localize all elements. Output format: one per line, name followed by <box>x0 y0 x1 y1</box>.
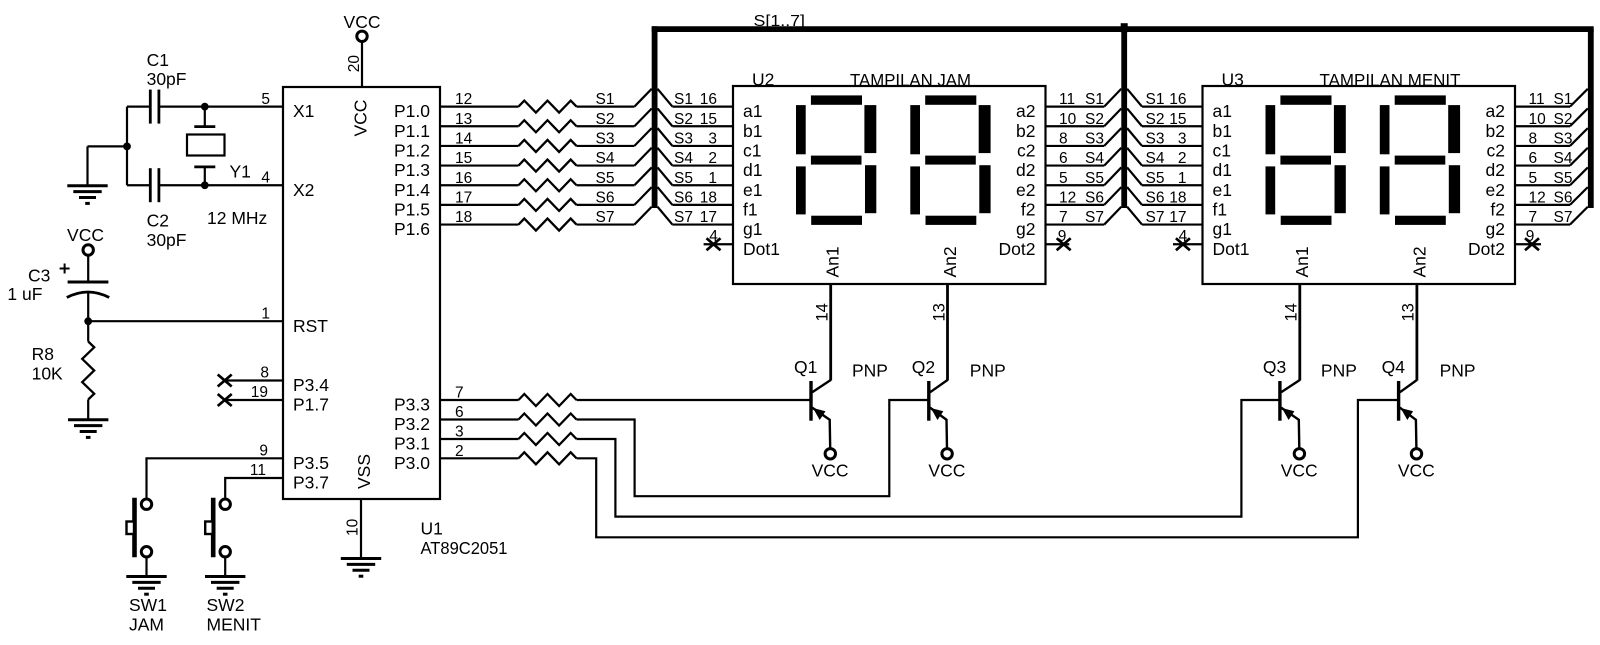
ground (SW1) <box>126 577 166 595</box>
transistor Q3 (PNP) collector lead <box>1298 284 1301 381</box>
bus entry S5 (U3 right) <box>1570 167 1588 185</box>
svg-text:S2: S2 <box>1554 111 1573 128</box>
wire S6 to U2 pin 18 <box>672 204 733 206</box>
wire U1 pin 7 to resistor <box>440 399 519 401</box>
svg-text:P1.7: P1.7 <box>293 395 329 415</box>
svg-text:AT89C2051: AT89C2051 <box>421 538 508 558</box>
wire S1 to U2 pin 16 <box>672 105 733 107</box>
node ground branch junction <box>123 143 131 151</box>
wire U2 pin 7 to bus <box>1046 223 1105 225</box>
svg-text:S2: S2 <box>674 111 693 128</box>
svg-text:c2: c2 <box>1017 141 1035 161</box>
transistor Q4 body <box>1399 380 1417 448</box>
svg-text:Dot1: Dot1 <box>743 239 780 259</box>
svg-text:f1: f1 <box>1213 200 1228 220</box>
wire VCC to C3 <box>87 255 89 281</box>
svg-text:g1: g1 <box>743 219 762 239</box>
transistor Q4 (PNP) collector lead <box>1416 284 1419 381</box>
svg-text:e1: e1 <box>743 180 762 200</box>
svg-text:S1: S1 <box>1146 91 1165 108</box>
svg-text:g2: g2 <box>1486 219 1505 239</box>
svg-text:VCC: VCC <box>928 461 965 481</box>
wire to crystal ground <box>88 145 128 147</box>
wire resistor to bus S2 <box>577 125 635 127</box>
VCC terminal of Q2 <box>942 449 952 459</box>
svg-text:b2: b2 <box>1016 121 1035 141</box>
svg-text:30pF: 30pF <box>147 230 187 250</box>
svg-text:14: 14 <box>1283 303 1301 321</box>
svg-text:5: 5 <box>261 91 270 108</box>
wire Dot1 stub (U3 pin 4) <box>1173 243 1203 245</box>
svg-text:C2: C2 <box>147 210 169 230</box>
bus exit S7 to U2 <box>658 207 673 225</box>
wire U3 pin 11 to bus <box>1515 105 1570 107</box>
svg-text:S3: S3 <box>1085 131 1104 148</box>
svg-text:10: 10 <box>1059 111 1077 128</box>
svg-text:U3: U3 <box>1222 70 1244 90</box>
svg-text:12 MHz: 12 MHz <box>207 208 267 228</box>
svg-text:VCC: VCC <box>344 12 381 32</box>
svg-text:d2: d2 <box>1486 160 1505 180</box>
wire S3 to U2 pin 3 <box>672 145 733 147</box>
svg-text:g2: g2 <box>1016 219 1035 239</box>
svg-text:a2: a2 <box>1486 101 1505 121</box>
svg-text:a1: a1 <box>743 101 762 121</box>
svg-text:S1: S1 <box>596 91 615 108</box>
bus entry left S6 <box>634 187 651 205</box>
wire resistor to bus S5 <box>577 184 635 186</box>
wire P3.7 (pin 11) to SW2 <box>225 478 283 498</box>
svg-text:P1.1: P1.1 <box>394 121 430 141</box>
svg-text:S6: S6 <box>596 190 615 207</box>
U2 digit 1 (8) <box>796 95 876 225</box>
wire U3 pin 5 to bus <box>1515 184 1570 186</box>
wire resistor to bus S3 <box>577 145 635 147</box>
wire U3 pin 8 to bus <box>1515 145 1570 147</box>
wire U2 pin 10 to bus <box>1046 125 1105 127</box>
resistor (base drive 4) <box>519 452 577 464</box>
svg-text:S3: S3 <box>596 131 615 148</box>
wire Dot2 stub (U2 pin 9) <box>1046 243 1070 245</box>
svg-text:14: 14 <box>814 303 832 321</box>
7-segment display U2 box <box>733 86 1046 284</box>
wire P3.3 to Q1 base <box>577 399 812 401</box>
wire P3.0 to Q4 base <box>577 400 1399 537</box>
svg-text:f2: f2 <box>1021 200 1036 220</box>
capacitor C2 <box>150 168 159 202</box>
wire P1.7 stub (pin 19) <box>224 399 283 401</box>
wire S2 to U2 pin 15 <box>672 125 733 127</box>
svg-text:4: 4 <box>1179 228 1188 245</box>
svg-text:PNP: PNP <box>852 360 888 380</box>
VCC terminal of Q3 <box>1294 449 1304 459</box>
wire S4 to U3 pin 2 <box>1142 164 1203 166</box>
bus S[1..7] vertical (middle) <box>1121 29 1127 208</box>
svg-text:P3.1: P3.1 <box>394 434 430 454</box>
svg-text:X2: X2 <box>293 180 314 200</box>
no-connect X on pin 19 <box>218 394 232 406</box>
svg-text:P1.2: P1.2 <box>394 141 430 161</box>
bus entry S6 (U3 right) <box>1570 187 1588 205</box>
svg-text:6: 6 <box>1059 150 1068 167</box>
wire U3 pin 12 to bus <box>1515 204 1570 206</box>
svg-text:9: 9 <box>1526 228 1535 245</box>
capacitor C1 <box>150 90 159 124</box>
svg-text:S4: S4 <box>1146 150 1165 167</box>
svg-text:An1: An1 <box>822 246 842 277</box>
wire pin 12 to resistor <box>440 105 519 107</box>
svg-text:d1: d1 <box>743 160 762 180</box>
resistor (segment S1 series) <box>519 101 577 113</box>
resistor (segment S2 series) <box>519 120 577 132</box>
svg-text:S7: S7 <box>1085 209 1104 226</box>
wire S5 to U2 pin 1 <box>672 184 733 186</box>
svg-text:S5: S5 <box>674 170 693 187</box>
bus exit S1 to U3 <box>1127 89 1142 107</box>
svg-text:S2: S2 <box>596 111 615 128</box>
svg-text:b1: b1 <box>1213 121 1232 141</box>
bus exit S2 to U3 <box>1127 108 1142 126</box>
svg-text:f2: f2 <box>1490 200 1505 220</box>
bus exit S5 to U2 <box>658 167 673 185</box>
svg-text:VCC: VCC <box>67 225 104 245</box>
svg-text:PNP: PNP <box>1321 360 1357 380</box>
ground (SW2) <box>205 577 245 595</box>
svg-text:10K: 10K <box>32 363 63 383</box>
svg-text:b2: b2 <box>1486 121 1505 141</box>
svg-text:P3.5: P3.5 <box>293 453 329 473</box>
bus exit S6 to U3 <box>1127 187 1142 205</box>
transistor Q2 (PNP) collector lead <box>946 284 949 381</box>
wire U2 pin 5 to bus <box>1046 184 1105 186</box>
svg-text:VCC: VCC <box>1398 461 1435 481</box>
U3 digit 1 (8) <box>1266 95 1346 225</box>
svg-text:S2: S2 <box>1085 111 1104 128</box>
no-connect X on U3 Dot2 <box>1525 238 1539 250</box>
svg-text:VCC: VCC <box>1281 461 1318 481</box>
switch SW1 (JAM) <box>127 498 152 577</box>
wire S1 to U3 pin 16 <box>1142 105 1203 107</box>
node X1 junction <box>201 103 209 111</box>
svg-text:S4: S4 <box>1554 150 1573 167</box>
svg-text:8: 8 <box>1529 131 1538 148</box>
svg-text:S6: S6 <box>1146 190 1165 207</box>
svg-text:b1: b1 <box>743 121 762 141</box>
svg-text:S3: S3 <box>674 131 693 148</box>
svg-text:P1.4: P1.4 <box>394 180 430 200</box>
wire S7 to U3 pin 17 <box>1142 223 1203 225</box>
bus S[1..7] vertical (left) <box>652 26 658 208</box>
bus exit S3 to U3 <box>1127 128 1142 146</box>
svg-text:30pF: 30pF <box>147 69 187 89</box>
bus exit S7 to U3 <box>1127 207 1142 225</box>
bus junction dot <box>1121 23 1128 32</box>
svg-text:e1: e1 <box>1213 180 1232 200</box>
transistor Q2 body <box>929 380 948 448</box>
7-segment display U3 box <box>1203 86 1516 284</box>
wire resistor to bus S6 <box>577 204 635 206</box>
svg-text:a1: a1 <box>1213 101 1232 121</box>
bus S[1..7] horizontal (top) <box>652 26 1594 32</box>
wire pin 15 to resistor <box>440 164 519 166</box>
svg-text:5: 5 <box>1059 170 1068 187</box>
bus entry left S2 <box>634 108 651 126</box>
bus exit S4 to U2 <box>658 148 673 166</box>
resistor (segment S7 series) <box>519 219 577 231</box>
VCC terminal of Q1 <box>825 449 835 459</box>
resistor (segment S5 series) <box>519 179 577 191</box>
svg-text:a2: a2 <box>1016 101 1035 121</box>
svg-text:S2: S2 <box>1146 111 1165 128</box>
svg-text:P3.4: P3.4 <box>293 375 329 395</box>
svg-text:g1: g1 <box>1213 219 1232 239</box>
svg-text:S4: S4 <box>596 150 615 167</box>
svg-text:Q3: Q3 <box>1263 357 1286 377</box>
transistor Q1 (PNP) collector lead <box>829 284 832 381</box>
svg-text:15: 15 <box>1169 111 1186 128</box>
bus entry S7 (U2 right) <box>1104 207 1121 225</box>
wire RST (pin 1) <box>88 320 283 322</box>
svg-text:S1: S1 <box>1554 91 1573 108</box>
bus entry left S5 <box>634 167 651 185</box>
ground (R8) <box>68 420 108 438</box>
svg-text:P3.2: P3.2 <box>394 414 430 434</box>
svg-text:S6: S6 <box>674 190 693 207</box>
svg-text:S7: S7 <box>674 209 693 226</box>
svg-text:Q1: Q1 <box>794 357 817 377</box>
wire P3.4 stub (pin 8) <box>224 379 283 381</box>
resistor (base drive 2) <box>519 414 577 426</box>
wire pin 16 to resistor <box>440 184 519 186</box>
ground (VSS) <box>341 559 381 577</box>
svg-text:S7: S7 <box>596 209 615 226</box>
svg-text:S3: S3 <box>1146 131 1165 148</box>
svg-text:An2: An2 <box>1409 246 1429 277</box>
capacitor C3 (electrolytic) <box>60 264 110 298</box>
svg-text:12: 12 <box>1529 190 1546 207</box>
svg-text:9: 9 <box>1058 228 1067 245</box>
svg-text:S6: S6 <box>1085 190 1104 207</box>
svg-text:e2: e2 <box>1486 180 1505 200</box>
svg-text:P1.6: P1.6 <box>394 219 430 239</box>
svg-text:3: 3 <box>708 131 717 148</box>
wire S5 to U3 pin 1 <box>1142 184 1203 186</box>
wire U3 pin 7 to bus <box>1515 223 1570 225</box>
svg-text:S6: S6 <box>1554 190 1573 207</box>
bus entry left S4 <box>634 148 651 166</box>
svg-text:S4: S4 <box>1085 150 1104 167</box>
wire U1 pin 2 to resistor <box>440 457 519 459</box>
svg-text:d2: d2 <box>1016 160 1035 180</box>
wire S4 to U2 pin 2 <box>672 164 733 166</box>
svg-text:S7: S7 <box>1146 209 1165 226</box>
ground (crystal) <box>67 186 107 204</box>
wire Dot2 stub (U3 pin 9) <box>1515 243 1541 245</box>
svg-text:SW1: SW1 <box>129 595 167 615</box>
bus entry S5 (U2 right) <box>1104 167 1121 185</box>
svg-text:Q2: Q2 <box>912 357 935 377</box>
svg-text:An2: An2 <box>940 246 960 277</box>
svg-text:Q4: Q4 <box>1382 357 1406 377</box>
bus entry S1 (U3 right) <box>1570 89 1588 107</box>
U2 digit 2 (8) <box>910 95 990 225</box>
svg-text:16: 16 <box>1169 91 1186 108</box>
svg-text:17: 17 <box>1169 209 1186 226</box>
wire X1 net (pin 5) <box>127 105 150 107</box>
svg-text:P3.7: P3.7 <box>293 473 329 493</box>
no-connect X on U2 Dot2 <box>1057 238 1071 250</box>
svg-text:C3: C3 <box>28 266 50 286</box>
svg-text:P1.5: P1.5 <box>394 200 430 220</box>
no-connect X on U3 Dot1 <box>1176 238 1190 250</box>
svg-text:TAMPILAN JAM: TAMPILAN JAM <box>850 70 971 90</box>
no-connect X on U2 Dot1 <box>707 238 721 250</box>
U3 digit 2 (8) <box>1380 95 1460 225</box>
bus exit S6 to U2 <box>658 187 673 205</box>
wire resistor to bus S1 <box>577 105 635 107</box>
wire pin 17 to resistor <box>440 204 519 206</box>
wire pin 13 to resistor <box>440 125 519 127</box>
bus entry left S7 <box>634 207 651 225</box>
svg-text:VSS: VSS <box>354 454 374 489</box>
svg-text:8: 8 <box>1059 131 1068 148</box>
svg-text:16: 16 <box>700 91 717 108</box>
wire X2 net (pin 4) <box>127 184 150 186</box>
svg-text:C1: C1 <box>147 50 169 70</box>
svg-text:U2: U2 <box>752 70 774 90</box>
resistor (base drive 3) <box>519 433 577 445</box>
switch SW2 (MENIT) <box>205 498 230 577</box>
svg-text:18: 18 <box>700 190 717 207</box>
svg-text:1: 1 <box>708 170 717 187</box>
bus exit S4 to U3 <box>1127 148 1142 166</box>
bus entry S4 (U2 right) <box>1104 148 1121 166</box>
svg-text:3: 3 <box>1178 131 1187 148</box>
svg-text:8: 8 <box>260 365 269 382</box>
svg-text:R8: R8 <box>32 344 54 364</box>
svg-text:e2: e2 <box>1016 180 1035 200</box>
svg-text:10: 10 <box>345 518 362 536</box>
svg-text:4: 4 <box>261 169 270 186</box>
wire pin 14 to resistor <box>440 145 519 147</box>
svg-text:VCC: VCC <box>812 461 849 481</box>
svg-text:JAM: JAM <box>129 614 164 634</box>
wire Dot1 stub (U2 pin 4) <box>704 243 733 245</box>
svg-text:12: 12 <box>1059 190 1076 207</box>
svg-text:Y1: Y1 <box>230 162 251 182</box>
svg-text:U1: U1 <box>421 519 443 539</box>
svg-text:PNP: PNP <box>1440 360 1476 380</box>
svg-text:c1: c1 <box>743 141 761 161</box>
svg-text:9: 9 <box>259 442 268 459</box>
svg-text:S1: S1 <box>1085 91 1104 108</box>
svg-text:RST: RST <box>293 316 328 336</box>
wire VSS (pin 10) <box>360 499 362 559</box>
bus entry S1 (U2 right) <box>1104 89 1121 107</box>
VCC terminal of Q4 <box>1411 449 1421 459</box>
bus entry S7 (U3 right) <box>1570 207 1588 225</box>
svg-text:S5: S5 <box>1554 170 1573 187</box>
svg-text:20: 20 <box>346 55 363 73</box>
bus entry S2 (U3 right) <box>1570 108 1588 126</box>
wire resistor to bus S7 <box>577 223 635 225</box>
bus entry S3 (U3 right) <box>1570 128 1588 146</box>
svg-text:6: 6 <box>1529 150 1538 167</box>
svg-text:VCC: VCC <box>351 100 371 137</box>
svg-text:13: 13 <box>1400 303 1418 321</box>
node RST junction <box>84 317 92 325</box>
wire U1 pin 6 to resistor <box>440 418 519 420</box>
svg-text:5: 5 <box>1529 170 1538 187</box>
svg-text:13: 13 <box>930 303 948 321</box>
resistor (base drive 1) <box>519 394 577 406</box>
svg-text:11: 11 <box>1529 91 1545 108</box>
svg-text:P3.3: P3.3 <box>394 395 430 415</box>
svg-text:2: 2 <box>708 150 717 167</box>
svg-text:P3.0: P3.0 <box>394 453 430 473</box>
svg-text:19: 19 <box>251 384 268 401</box>
svg-text:X1: X1 <box>293 101 314 121</box>
wire U2 pin 6 to bus <box>1046 164 1105 166</box>
no-connect X on pin 8 <box>218 375 232 387</box>
bus entry left S1 <box>634 89 651 107</box>
resistor (segment S6 series) <box>519 199 577 211</box>
wire S7 to U2 pin 17 <box>672 223 733 225</box>
bus entry S2 (U2 right) <box>1104 108 1121 126</box>
wire U1 pin 3 to resistor <box>440 438 519 440</box>
svg-text:S5: S5 <box>1085 170 1104 187</box>
svg-text:11: 11 <box>250 462 266 479</box>
svg-text:7: 7 <box>1529 209 1538 226</box>
wire S3 to U3 pin 3 <box>1142 145 1203 147</box>
bus exit S3 to U2 <box>658 128 673 146</box>
svg-text:1 uF: 1 uF <box>7 284 42 304</box>
svg-text:An1: An1 <box>1292 246 1312 277</box>
svg-text:TAMPILAN MENIT: TAMPILAN MENIT <box>1320 70 1461 90</box>
bus exit S5 to U3 <box>1127 167 1142 185</box>
IC U1 AT89C2051 box <box>283 87 440 499</box>
bus exit S2 to U2 <box>658 108 673 126</box>
resistor (segment S3 series) <box>519 140 577 152</box>
svg-text:PNP: PNP <box>970 360 1006 380</box>
svg-text:c1: c1 <box>1213 141 1231 161</box>
wire S6 to U3 pin 18 <box>1142 204 1203 206</box>
wire U3 pin 10 to bus <box>1515 125 1570 127</box>
svg-text:Dot1: Dot1 <box>1213 239 1250 259</box>
svg-text:1: 1 <box>1178 170 1187 187</box>
svg-text:11: 11 <box>1059 91 1075 108</box>
wire P3.2 to Q2 base <box>577 400 929 496</box>
svg-text:P1.0: P1.0 <box>394 101 430 121</box>
svg-text:d1: d1 <box>1213 160 1232 180</box>
svg-text:S5: S5 <box>596 170 615 187</box>
wire U2 pin 8 to bus <box>1046 145 1105 147</box>
wire U3 pin 6 to bus <box>1515 164 1570 166</box>
svg-text:SW2: SW2 <box>207 595 245 615</box>
bus entry left S3 <box>634 128 651 146</box>
svg-text:P1.3: P1.3 <box>394 160 430 180</box>
wire left vertical C1-C2 <box>126 107 128 186</box>
resistor R8 <box>87 321 89 341</box>
svg-text:MENIT: MENIT <box>207 614 262 634</box>
resistor (segment S4 series) <box>519 160 577 172</box>
bus entry S4 (U3 right) <box>1570 148 1588 166</box>
svg-text:1: 1 <box>261 305 270 322</box>
svg-text:10: 10 <box>1529 111 1547 128</box>
transistor Q1 body <box>811 380 831 448</box>
svg-text:S4: S4 <box>674 150 693 167</box>
bus S[1..7] vertical (right) <box>1588 29 1594 208</box>
